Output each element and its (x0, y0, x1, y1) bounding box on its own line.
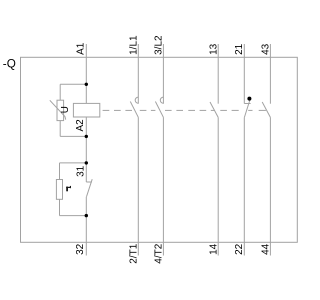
svg-text:A2: A2 (75, 119, 86, 132)
wire varistor bottom rail (60, 135, 86, 137)
svg-text:43: 43 (261, 43, 272, 55)
wire A1 terminal stub / coil feed (85, 44, 87, 103)
wire resistor bottom rail (node 32) (60, 215, 87, 217)
wire 43 upper lead (269, 44, 271, 104)
wire resistor top rail (node 31) (60, 162, 87, 164)
wire 3/L2 upper lead (162, 44, 164, 104)
enclosure border (21, 57, 298, 242)
svg-text:2/T1: 2/T1 (128, 243, 139, 263)
svg-text:4/T2: 4/T2 (154, 243, 165, 263)
varistor RV1 diagonal stroke (50, 100, 66, 119)
NC contact 31-32 crossbar (86, 181, 92, 183)
main contact 1/L1-2/T1 arc (135, 97, 138, 103)
wire 44 lower lead (269, 117, 271, 255)
wire varistor left branch lower (59, 121, 61, 137)
wire 2/T1 lower lead (137, 117, 139, 255)
svg-text:22: 22 (234, 243, 245, 255)
NC contact 21-22 crossbar (244, 103, 250, 105)
svg-text:1/L1: 1/L1 (128, 35, 139, 55)
mechanical linkage dashed line (103, 109, 266, 111)
main contact 3/L2-4/T2 arc (160, 97, 163, 103)
wire resistor left branch lower (59, 199, 61, 215)
wire varistor top rail (60, 83, 86, 85)
svg-text:21: 21 (234, 43, 245, 55)
coil K1 A1-A2 (73, 103, 99, 117)
label theta (thermistor) (66, 186, 71, 191)
svg-text:13: 13 (208, 43, 219, 55)
junction node at A2/varistor bottom (85, 135, 88, 138)
NO contact 13-14 blade (210, 102, 218, 117)
wire 22 lower lead (243, 118, 245, 256)
mirror-contact dot on contact 21 (247, 97, 251, 101)
svg-text:U: U (60, 106, 71, 113)
thermistor R1 body (56, 180, 62, 200)
junction node 32 (85, 214, 88, 217)
NC contact 31-32 blade (87, 179, 93, 197)
wire 14 lower lead (217, 117, 219, 255)
NC contact 21-22 blade (244, 100, 250, 117)
wire resistor left branch upper (59, 163, 61, 180)
svg-text:31: 31 (75, 165, 86, 177)
wire 13 upper lead (217, 44, 219, 104)
wire 32 lower lead (85, 197, 87, 256)
varistor RV1 body (57, 100, 64, 120)
junction node at A1/varistor top (85, 83, 88, 86)
main contact 1/L1-2/T1 blade (130, 102, 138, 118)
wire varistor left branch upper (59, 84, 61, 100)
NO contact 43-44 blade (262, 102, 270, 117)
wire 21 upper lead (243, 44, 245, 104)
wire coil bottom to A2 node (85, 117, 87, 163)
svg-text:32: 32 (75, 243, 86, 255)
svg-text:3/L2: 3/L2 (154, 35, 165, 55)
svg-text:-Q: -Q (3, 57, 16, 70)
svg-text:44: 44 (261, 243, 272, 255)
NC contact 31-32 fixed lead (85, 163, 87, 182)
junction node 31 (85, 161, 88, 164)
wire 1/L1 upper lead (137, 44, 139, 104)
svg-text:14: 14 (208, 243, 219, 255)
svg-text:A1: A1 (75, 42, 86, 55)
main contact 3/L2-4/T2 blade (155, 102, 163, 118)
wire 4/T2 lower lead (162, 117, 164, 255)
